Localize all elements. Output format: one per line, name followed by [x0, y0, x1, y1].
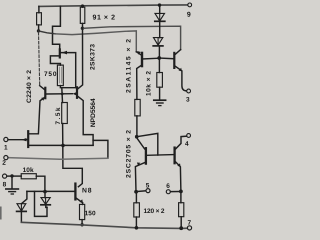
svg-text:9: 9 [187, 12, 191, 19]
resistor R3 750 [57, 65, 63, 86]
resistor R2 (91x2, top middle) [82, 6, 84, 7]
transistor Q7 2SA1145 (mirrored PNP) bar [141, 53, 143, 66]
wire mirror collector-base tie [137, 133, 158, 155]
node R2 bottom junction [81, 27, 84, 30]
terminal 5 [136, 190, 146, 193]
Q4 gate lead from terminal 1 [8, 139, 27, 141]
transistor Q5 upper-right NPN bar [173, 53, 175, 68]
node output-right junction [179, 190, 183, 194]
node base-wire junction [43, 190, 47, 194]
wire bottom rail [21, 222, 187, 228]
transistor Q3 NPD5564 half-2 gate arrow [73, 92, 77, 95]
Q7 collector lead down [137, 65, 142, 100]
svg-text:4: 4 [185, 141, 189, 148]
terminal 6 [171, 191, 179, 193]
resistor R5 150 [80, 204, 85, 219]
wire1 Q4 source to tail [29, 144, 93, 146]
terminal 7 [187, 226, 191, 230]
wire A (R2 node to right NPN collector) [82, 26, 180, 49]
svg-text:2: 2 [2, 160, 6, 167]
svg-text:1: 1 [4, 145, 8, 152]
paper background [0, 0, 196, 236]
svg-text:7: 7 [187, 220, 191, 227]
Q2 collector lead (dashed up to R1 node) [39, 32, 40, 85]
Q5 base wire from diode node [160, 57, 173, 60]
ground (right) [154, 99, 166, 101]
Q6 base wire [27, 190, 74, 192]
terminal 2 [4, 156, 8, 160]
svg-text:8: 8 [3, 181, 7, 188]
resistor R9 120 (left of pair) [135, 192, 137, 203]
svg-text:91 × 2: 91 × 2 [92, 15, 115, 22]
terminal 1 [4, 137, 8, 141]
wire shared base of mirror [147, 154, 173, 157]
diode D1 (top right) [159, 5, 161, 13]
resistor R10 120 (right of pair) [180, 191, 182, 202]
Q1 gate lead [61, 53, 76, 88]
wire 7.5k bottom chain to N8 collector [63, 124, 83, 187]
svg-text:120 × 2: 120 × 2 [143, 208, 164, 215]
Q6 emitter lead [77, 198, 83, 204]
svg-text:150: 150 [85, 210, 96, 217]
diode D4 (right) [44, 192, 46, 198]
Q9 collector to terminal 4 [176, 136, 187, 149]
transistor Q4 NPD5564 half-1 channel bar [27, 131, 29, 147]
svg-text:3: 3 [186, 97, 190, 104]
wire U loop [35, 192, 48, 217]
diode D2 [154, 38, 163, 46]
node mirror input [135, 135, 139, 139]
Q1 source lead [50, 56, 60, 65]
Q2 base wire to Q3 gate [46, 93, 72, 95]
Q5 collector lead [175, 50, 180, 55]
Q5 emitter to terminal 3 [175, 66, 186, 91]
svg-text:2SC2705 × 2: 2SC2705 × 2 [126, 130, 133, 178]
terminal 4 [187, 134, 191, 138]
svg-text:10k × 2: 10k × 2 [146, 71, 153, 96]
resistor R6 10k (horizontal) [21, 174, 36, 179]
wire terminal 8 to 10k [7, 175, 21, 177]
resistor R7 10k x 2 [158, 60, 160, 73]
terminal 8 [3, 174, 7, 178]
resistor R8 (PNP collector load) [135, 99, 140, 116]
svg-text:7.5k: 7.5k [55, 107, 62, 124]
Q7 base lead to diode node [142, 57, 159, 60]
Q3 source lead down and staircase to wire2 [78, 97, 93, 146]
transistor Q8 2SC2705 (mirrored, diode-connected) bar [145, 148, 147, 163]
terminal 9 [188, 3, 192, 7]
node output-left junction [134, 190, 138, 194]
svg-text:N8: N8 [82, 188, 92, 195]
transistor Q2 2SC2240 (mirrored cascode) bar [44, 88, 46, 98]
Q8 collector diag [137, 138, 145, 149]
transistor Q9 2SC2705 (right) bar [173, 148, 175, 164]
node diode bottom junction [157, 56, 161, 60]
ground (left) [11, 176, 13, 189]
wire B (R1 node to PNP emitter) [39, 31, 56, 34]
diode D3 (left) [21, 191, 27, 203]
Q2 emitter lead down to Q4 drain [29, 97, 45, 134]
Q3 channel bar [76, 87, 78, 98]
svg-text:NPD5564: NPD5564 [90, 98, 97, 127]
wire 750 bottom to gate-drop junction [60, 86, 75, 88]
transistor Q1 2SK373 JFET (channel bar) [59, 49, 61, 57]
wire zigzag rail to JFET drain [53, 6, 61, 50]
node tail junction on wire1 [61, 144, 65, 148]
svg-text:2SK373: 2SK373 [90, 44, 97, 70]
resistor R4 7.5k [62, 103, 68, 124]
svg-text:6: 6 [166, 183, 170, 190]
wire2 terminal 2 feedback (gray) [8, 158, 108, 160]
wire 750 bottom down to base-bias wire and 7.5k [61, 88, 64, 103]
svg-text:C2240 × 2: C2240 × 2 [26, 70, 33, 103]
Q8 emitter lead [135, 163, 144, 192]
transistor Q6 N8 bar [74, 184, 76, 200]
Q9 emitter lead [176, 162, 181, 191]
Q3 drain lead up to R2 node [78, 28, 83, 88]
svg-text:750: 750 [44, 71, 57, 78]
svg-text:5: 5 [146, 183, 150, 190]
svg-text:2SA1145 × 2: 2SA1145 × 2 [126, 39, 133, 93]
wire V+ top rail [39, 5, 188, 7]
Q7 emitter arrow (top lead) [137, 51, 141, 55]
resistor R1 (left top) [38, 6, 40, 12]
node R1 bottom junction [37, 29, 40, 32]
left edge smudge [0, 207, 2, 220]
svg-text:10k: 10k [23, 167, 34, 174]
terminal 3 [187, 89, 191, 93]
